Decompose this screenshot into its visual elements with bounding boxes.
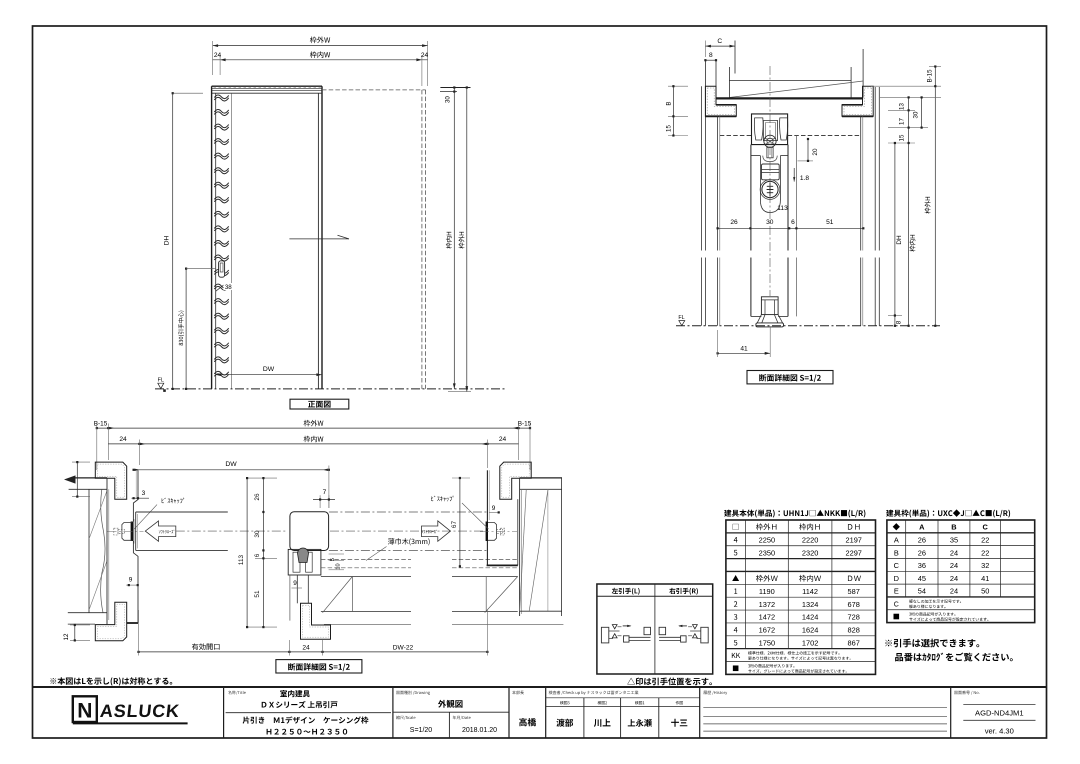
dimension 67 (right jamb) xyxy=(451,477,470,568)
label box 正面図 xyxy=(290,399,349,409)
hsec right screw (hidden) xyxy=(480,528,517,535)
hanger roller wheel xyxy=(764,135,776,147)
label ビスキャップ (left) with leader xyxy=(134,498,184,529)
svg-text:13: 13 xyxy=(899,103,906,110)
svg-text:30: 30 xyxy=(913,111,920,118)
svg-text:2320: 2320 xyxy=(802,548,818,557)
section hidden soffit dashed line xyxy=(720,135,861,137)
svg-text:2350: 2350 xyxy=(759,548,775,557)
hsec left jamb board with soft-close catch xyxy=(122,470,138,623)
label 113 (section) xyxy=(777,205,788,212)
dimension 9 (hsec left jamb) xyxy=(126,577,139,587)
dim text 8 right xyxy=(896,320,903,324)
svg-text:24: 24 xyxy=(214,52,222,59)
front view sliding direction arrow xyxy=(289,235,349,239)
svg-text:N: N xyxy=(77,700,92,723)
hsec dimension row 枠外W / B-15 xyxy=(94,420,532,470)
svg-text:6: 6 xyxy=(791,219,795,226)
history cell 履歴 xyxy=(703,691,947,731)
svg-text:1324: 1324 xyxy=(802,600,818,609)
svg-text:678: 678 xyxy=(848,600,860,609)
svg-text:17: 17 xyxy=(899,118,906,125)
svg-text:30: 30 xyxy=(254,530,261,538)
svg-text:1424: 1424 xyxy=(802,613,818,622)
label 38 (handle offset) xyxy=(224,283,234,291)
title cell 名称 xyxy=(226,690,391,735)
section floor line xyxy=(676,325,940,327)
svg-text:AGD-ND4JM1: AGD-ND4JM1 xyxy=(975,709,1024,718)
door hanger adjust bracket xyxy=(762,164,780,180)
svg-text:10: 10 xyxy=(336,563,342,569)
note 品番はカタログをご覧ください xyxy=(895,653,1013,662)
svg-text:41: 41 xyxy=(740,345,748,352)
svg-text:22: 22 xyxy=(981,535,989,544)
front view door handle xyxy=(216,261,225,291)
hsec left pocket board double line xyxy=(107,478,109,624)
hsec left wall with section arrow xyxy=(64,475,107,624)
svg-text:15: 15 xyxy=(666,125,673,132)
svg-text:1190: 1190 xyxy=(759,587,775,596)
svg-text:1142: 1142 xyxy=(802,587,818,596)
svg-text:B-15: B-15 xyxy=(927,69,934,83)
svg-text:26: 26 xyxy=(918,548,926,557)
dim text 30 right xyxy=(913,111,920,118)
hanger rail housing xyxy=(752,114,788,145)
svg-text:3: 3 xyxy=(142,490,146,497)
section right casing L-profile xyxy=(842,86,873,116)
dim text 15 right xyxy=(899,134,906,141)
svg-text:DH: DH xyxy=(896,235,903,245)
svg-text:S=1/20: S=1/20 xyxy=(410,727,432,734)
hsec right wall with braces xyxy=(520,478,562,616)
checker names xyxy=(556,719,687,727)
svg-text:26: 26 xyxy=(918,535,926,544)
dimension 枠外W (front top) xyxy=(213,37,428,86)
svg-text:1750: 1750 xyxy=(759,638,775,647)
svg-text:24: 24 xyxy=(302,644,310,651)
label 薄巾木(3mm) with leader xyxy=(366,538,430,560)
svg-text:113: 113 xyxy=(238,554,245,565)
svg-text:30: 30 xyxy=(766,219,774,226)
NASLUCK logo xyxy=(73,696,188,723)
hsec dimension DW xyxy=(133,461,331,508)
approver cell 高橋 xyxy=(512,691,536,727)
dim text DH section xyxy=(896,235,903,245)
svg-text:1702: 1702 xyxy=(802,638,818,647)
svg-text:24: 24 xyxy=(950,574,958,583)
hsec door open position dashed lines xyxy=(329,512,488,550)
dimensions 5 and 10 (baseboard) xyxy=(329,554,344,570)
dimension 枠内H (front right) xyxy=(446,88,456,389)
table 建具本体 contents xyxy=(732,523,862,672)
svg-text:20: 20 xyxy=(812,148,819,156)
svg-text:36: 36 xyxy=(918,561,926,570)
dimension B and 15 (section left) xyxy=(666,85,689,136)
section right dim chain lines xyxy=(871,65,941,327)
table 建具本体 grid xyxy=(726,520,876,674)
svg-text:1372: 1372 xyxy=(759,600,775,609)
FL marker front view xyxy=(158,378,166,392)
dimension 830(引手中心) front left xyxy=(178,268,216,391)
hsec right jamb board with catch xyxy=(487,470,518,565)
svg-text:2197: 2197 xyxy=(845,535,861,544)
dim text 枠外H section xyxy=(925,197,931,214)
dim text 13 xyxy=(899,103,906,110)
svg-text:113: 113 xyxy=(777,205,788,212)
svg-text:45: 45 xyxy=(918,574,926,583)
svg-text:1472: 1472 xyxy=(759,613,775,622)
hsec door leaf end stile segment xyxy=(290,512,329,551)
svg-text:7: 7 xyxy=(323,489,327,496)
label box 断面詳細図 S=1/2 (horizontal section) xyxy=(276,660,362,673)
dimension 枠内W with 24 offsets (front top) xyxy=(213,51,429,86)
svg-text:8: 8 xyxy=(896,320,903,324)
front view open-door dashed position xyxy=(322,90,426,389)
hsec dimension row 枠内W / 24 xyxy=(108,436,518,468)
section left wall lines xyxy=(701,86,705,326)
svg-text:B: B xyxy=(951,523,956,532)
dimension C (section top) xyxy=(705,38,735,57)
dimension 1.8 (section) xyxy=(793,168,809,182)
svg-text:B: B xyxy=(894,548,899,557)
svg-text:B-15: B-15 xyxy=(94,421,108,428)
dimension 枠外H (front right) xyxy=(448,88,471,392)
svg-text:9: 9 xyxy=(492,505,496,512)
note 引手は選択できます xyxy=(885,639,979,648)
hanger bolt xyxy=(767,147,773,157)
FL marker section xyxy=(678,315,684,326)
svg-text:5: 5 xyxy=(330,558,336,561)
svg-text:24: 24 xyxy=(950,561,958,570)
svg-text:1.8: 1.8 xyxy=(800,175,809,182)
dimension 30 (front right top) xyxy=(440,86,471,103)
dimension DH (front left) xyxy=(164,92,204,390)
table 建具枠 title xyxy=(886,509,1010,517)
svg-text:30: 30 xyxy=(444,96,451,103)
hsec baseboard dashed hidden lines xyxy=(321,560,518,568)
svg-text:DW: DW xyxy=(225,461,237,468)
handle diagram right cell xyxy=(659,625,708,643)
svg-text:24: 24 xyxy=(499,436,507,443)
dimension 8 (section top) xyxy=(704,52,717,61)
section left casing L-profile xyxy=(705,86,736,116)
svg-text:67: 67 xyxy=(451,521,458,529)
section door bottom pivot guide xyxy=(756,297,784,327)
hsec vertical dim chain 26/30/6/51 and 113 xyxy=(238,477,277,628)
hsec bottom guide casing block xyxy=(301,603,331,639)
hsec right casing block top xyxy=(500,462,531,499)
svg-text:24: 24 xyxy=(950,587,958,596)
svg-text:26: 26 xyxy=(730,219,738,226)
floor line under front view xyxy=(155,388,505,390)
dimension DW (front bottom inside) xyxy=(216,366,322,376)
hsec top-left dim bracket xyxy=(72,461,90,498)
svg-text:FL: FL xyxy=(678,315,684,321)
front view door frame outer casing xyxy=(212,86,322,389)
note 本図はLを示し(R)は対称とする xyxy=(50,677,172,685)
door hanger screw xyxy=(760,180,780,200)
handle table box xyxy=(597,584,713,674)
table 建具本体 title xyxy=(724,510,865,518)
svg-text:2220: 2220 xyxy=(802,535,818,544)
svg-text:2250: 2250 xyxy=(759,535,775,544)
svg-text:587: 587 xyxy=(848,587,860,596)
svg-text:D: D xyxy=(894,574,899,583)
svg-text:ver. 4.30: ver. 4.30 xyxy=(985,727,1014,736)
hsec bottom dim row 有効開口 / 24 / DW-22 xyxy=(137,610,488,656)
svg-text:9: 9 xyxy=(129,577,133,584)
hsec bottom floor guide assembly xyxy=(288,548,321,621)
svg-text:8: 8 xyxy=(709,52,713,59)
svg-text:22: 22 xyxy=(981,548,989,557)
svg-text:C: C xyxy=(717,38,722,45)
hsec door leaf segment 1 xyxy=(136,512,228,550)
table 建具枠 contents xyxy=(893,523,990,622)
hsec baseboard section band xyxy=(321,577,564,625)
svg-text:B-15: B-15 xyxy=(518,421,532,428)
svg-text:E: E xyxy=(894,587,899,596)
svg-text:DW-22: DW-22 xyxy=(393,644,414,651)
handle diagram left cell xyxy=(601,625,650,643)
svg-text:24: 24 xyxy=(119,436,127,443)
svg-text:728: 728 xyxy=(848,613,860,622)
svg-text:9: 9 xyxy=(293,580,297,587)
svg-text:6: 6 xyxy=(254,553,261,557)
handle table headers xyxy=(612,588,698,595)
svg-text:32: 32 xyxy=(981,561,989,570)
hsec door travel centerline xyxy=(176,530,484,532)
svg-text:1624: 1624 xyxy=(802,626,818,635)
section header bottom line xyxy=(716,97,863,99)
dimension 7 (door end stile) xyxy=(313,489,335,508)
svg-text:1672: 1672 xyxy=(759,626,775,635)
svg-text:C: C xyxy=(894,601,899,608)
svg-text:38: 38 xyxy=(225,284,232,291)
note 印は引手位置を示す xyxy=(627,678,712,686)
svg-text:54: 54 xyxy=(918,587,926,596)
door top hanger pocket (U channel) xyxy=(760,156,780,213)
hsec left casing block bottom xyxy=(95,602,138,641)
svg-text:41: 41 xyxy=(981,574,989,583)
svg-text:DW: DW xyxy=(263,366,275,373)
checker cell header xyxy=(546,691,700,738)
dimension 9 (right jamb) xyxy=(489,505,500,514)
section top wall studs above header xyxy=(705,41,863,98)
svg-text:51: 51 xyxy=(826,219,834,226)
svg-text:DH: DH xyxy=(164,236,171,246)
hsec left casing block top xyxy=(95,462,126,499)
svg-text:ASLUCK: ASLUCK xyxy=(99,701,181,721)
title block frame xyxy=(33,687,1047,738)
svg-text:15: 15 xyxy=(899,134,906,141)
section pocket board lines below casing xyxy=(718,116,863,325)
dim text B-15 section xyxy=(927,69,934,83)
section door leaf verticals xyxy=(751,145,788,317)
svg-text:24: 24 xyxy=(421,52,429,59)
svg-text:35: 35 xyxy=(950,535,958,544)
dim text 17 xyxy=(899,118,906,125)
front view door leaf wavy texture strip xyxy=(214,93,231,389)
dimension 41 (section bottom) xyxy=(717,327,771,357)
dimension 9 (floor guide) xyxy=(292,580,303,588)
svg-text:A: A xyxy=(919,523,925,532)
section centerline xyxy=(769,66,771,296)
svg-text:828: 828 xyxy=(848,626,860,635)
svg-text:C: C xyxy=(894,561,900,570)
section bottom dimension chain 26 30 6 51 xyxy=(717,219,865,229)
label ビスキャップ (right) with leader xyxy=(431,496,488,529)
section wall finish line right of door xyxy=(796,136,798,317)
svg-text:B: B xyxy=(666,101,673,105)
section right wall lines xyxy=(875,87,879,326)
label box 断面詳細図 S=1/2 (vertical section) xyxy=(747,371,833,384)
soft-close arrow left xyxy=(145,521,176,541)
svg-text:24: 24 xyxy=(950,548,958,557)
svg-text:C: C xyxy=(983,523,989,532)
svg-text:2018.01.20: 2018.01.20 xyxy=(462,727,497,734)
svg-text:51: 51 xyxy=(254,590,261,598)
svg-text:26: 26 xyxy=(254,493,261,501)
svg-text:867: 867 xyxy=(848,638,860,647)
svg-text:FL: FL xyxy=(158,378,164,384)
drawing number cell xyxy=(954,691,1035,736)
svg-text:12: 12 xyxy=(63,633,70,640)
svg-text:A: A xyxy=(894,535,899,544)
hsec left screw (hidden) xyxy=(108,528,144,535)
soft-close arrow right xyxy=(421,521,450,541)
dim text 枠内H section xyxy=(909,235,915,252)
dimension 12 (hsec bottom left) xyxy=(63,624,90,642)
svg-text:2297: 2297 xyxy=(845,548,861,557)
svg-text:50: 50 xyxy=(981,587,989,596)
drawing type cell 図面種別 xyxy=(393,691,509,738)
dimension 3 (hsec left) xyxy=(132,490,150,499)
dimension 20 (section) xyxy=(798,138,820,162)
table 建具枠 grid xyxy=(887,520,1035,623)
